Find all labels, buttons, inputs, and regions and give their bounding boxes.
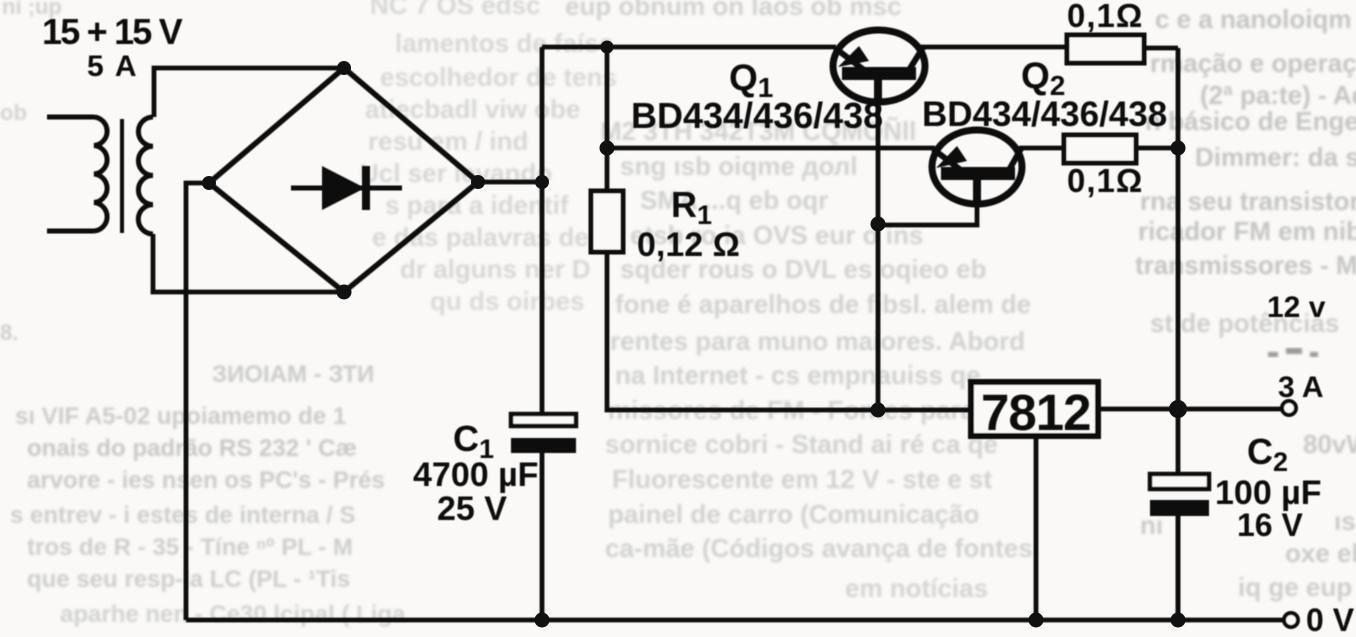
wire 7812 ground pin [1034,436,1039,620]
svg-text:qu ds oirbes: qu ds oirbes [430,286,585,316]
node C2 ground [1171,613,1186,628]
svg-text:e das palavras de: e das palavras de [372,222,589,252]
svg-text:0,12 Ω: 0,12 Ω [637,226,740,264]
faint dash marks under 12v [1268,348,1318,357]
wire top rail [542,45,836,50]
terminal +12V 3A [1282,401,1296,415]
svg-text:15 + 15 V: 15 + 15 V [42,11,183,52]
regulator 7812 box [971,382,1098,436]
svg-text:que seu resp-la LC (PL - ¹Tis: que seu resp-la LC (PL - ¹Tis [27,566,350,593]
svg-text:0 V: 0 V [1306,602,1355,632]
svg-text:painel de carro (Comunicação: painel de carro (Comunicação [608,499,979,529]
svg-text:sng ısb oiqme долl: sng ısb oiqme долl [620,151,858,181]
svg-text:c e a nanoloiqm: c e a nanoloiqm [1155,4,1352,34]
node 7812 ground [1029,613,1044,628]
svg-text:na Internet - cs empnauiss qe: na Internet - cs empnauiss qe [615,360,981,390]
svg-text:SMA ...q eb oqr: SMA ...q eb oqr [640,185,828,215]
svg-text:Dimmer: da sil: Dimmer: da sil [1195,142,1356,172]
svg-text:NC 7 OS edsc: NC 7 OS edsc [370,0,541,20]
svg-text:BD434/436/438: BD434/436/438 [631,95,883,136]
bridge rectifier diamond [209,68,478,292]
svg-text:8.: 8. [0,320,18,345]
wire vertical x=607 top rail to R1 [605,47,610,191]
node bridge bottom [337,285,352,300]
node 7812 output [1169,400,1187,418]
wire C2 bottom lead [1176,516,1181,620]
svg-text:onais do padrão RS 232 ' Cæ: onais do padrão RS 232 ' Cæ [27,435,357,462]
diode D1 inside bridge [291,166,402,210]
svg-text:80vW: 80vW [1303,429,1356,459]
wire R 0.1 bottom to right vertical [1136,146,1178,151]
svg-text:escolhedor de tens: escolhedor de tens [380,62,617,92]
svg-text:tros de R - 35 - Tíne ⁿº PL -: tros de R - 35 - Tíne ⁿº PL - M [27,534,353,561]
wire bridge left corner to 0V rail [186,183,209,620]
wire 7812 output to terminal [1098,407,1283,412]
terminal 0V [1284,613,1298,627]
svg-text:ca-mãe (Códigos avança de font: ca-mãe (Códigos avança de fontes [605,533,1033,563]
svg-text:ob: ob [0,100,27,125]
svg-text:aparhe nen - Ce30 lcipal ( Lig: aparhe nen - Ce30 lcipal ( Liga [60,601,406,628]
svg-text:0,1Ω: 0,1Ω [1067,162,1143,199]
transistor Q2 body [932,130,1022,204]
svg-text:rmação e operaç: rmação e operaç [1150,48,1356,78]
svg-text:0,1Ω: 0,1Ω [1067,0,1143,34]
wire Q1 collector to R 0.1 top [921,45,1067,50]
svg-text:ıs: ıs [1334,506,1356,536]
svg-text:25 V: 25 V [437,490,507,528]
node bridge top [337,61,351,75]
svg-text:rentes para muno maiores. Abor: rentes para muno maiores. Abord [610,326,1025,356]
svg-text:BD434/436/438: BD434/436/438 [922,95,1167,134]
svg-text:fone é aparelhos de fibsl. ale: fone é aparelhos de fibsl. alem de [615,289,1031,319]
wire R1 bottom to 7812 input [607,252,971,410]
svg-text:ricador FM em nibíles: ricador FM em nibíles [1138,216,1356,246]
resistor R1 0.12 ohm body [591,191,623,252]
wire secondary top lead to bridge [154,68,344,117]
wire +V vertical x=542 [540,47,545,414]
node rail2 x607 [600,141,615,156]
resistor 0.1 ohm top body [1067,35,1144,63]
wire secondary bottom lead to bridge [153,234,344,292]
svg-text:7812: 7812 [981,384,1090,441]
wire C1 bottom lead [540,453,545,620]
svg-text:resu em / ind: resu em / ind [368,126,528,156]
node right vertical rail2 [1171,141,1186,156]
transistor Q1 body [833,30,925,102]
svg-text:Fluorescente em 12 V - ste e s: Fluorescente em 12 V - ste e st [612,464,992,494]
svg-text:sı VIF A5-02 upoiamemo de 1: sı VIF A5-02 upoiamemo de 1 [15,403,346,430]
wire right vertical x=1178 [1176,48,1181,620]
transformer T1 secondary winding [138,117,153,234]
wire bridge right output [478,180,542,185]
svg-text:arvore - ies nsen os PC's - Pr: arvore - ies nsen os PC's - Prés [27,467,385,494]
wire R 0.1 top to right vertical [1144,46,1178,51]
node bridge left [202,176,216,190]
svg-text:5 A: 5 A [87,50,139,83]
svg-text:ЗИОІАМ - ЗТИ: ЗИОІАМ - ЗТИ [212,361,374,388]
svg-text:16 V: 16 V [1237,507,1303,543]
node Q bases join [871,217,886,232]
svg-text:lamentos de faísc: lamentos de faísc [395,28,613,58]
wire bottom 0V rail [186,618,1284,623]
svg-text:sornice cobri - Stand ai ré ca: sornice cobri - Stand ai ré ca qe [605,429,998,459]
capacitor C1 plates [511,414,576,453]
node 7812 input [871,403,886,418]
node +V at x542 [535,175,549,189]
resistor 0.1 ohm bottom body [1064,135,1136,163]
wire Q2 collector to R 0.1 bottom [1020,146,1064,151]
svg-text:12 v: 12 v [1267,291,1326,324]
svg-text:transmissores - Módulo: transmissores - Módulo [1135,250,1356,280]
wire Q1 base vertical [876,80,881,410]
svg-text:4700 µF: 4700 µF [413,456,538,494]
transformer T1 primary winding [47,117,107,231]
node top rail x607 [601,41,614,54]
svg-text:3 A: 3 A [1278,371,1324,404]
transformer T1 core [120,119,124,233]
svg-text:dr alguns ner D: dr alguns ner D [400,254,591,284]
svg-text:s entrev - i estes de interna: s entrev - i estes de interna / S [10,502,355,529]
capacitor C2 plates [1150,474,1209,516]
svg-text:iq ge eup: iq ge eup [1238,572,1352,602]
svg-text:eup obnum on laos ob msc: eup obnum on laos ob msc [565,0,902,21]
node bridge right [471,175,485,189]
svg-text:em notícias: em notícias [845,573,988,603]
wire emitter rail 2 [605,146,935,151]
svg-text:atiecbadl viw obe: atiecbadl viw obe [365,94,580,124]
node C1 ground [535,613,550,628]
wire Q2 base down-left [878,180,977,225]
svg-text:rna seu transistor FM: rna seu transistor FM [1140,186,1356,216]
